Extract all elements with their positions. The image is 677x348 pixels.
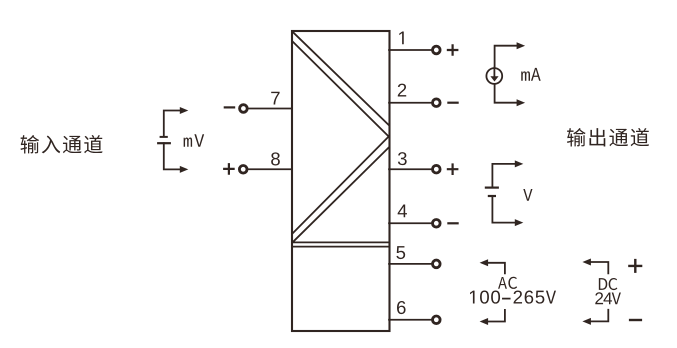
- terminal 6: [433, 316, 441, 324]
- AC supply top arrow: [487, 263, 505, 274]
- V source long plate: [486, 187, 498, 189]
- minus sign at terminal 2: [448, 102, 457, 104]
- wire pin2: [389, 102, 433, 104]
- isolation barrier diagonal 1: [293, 32, 389, 125]
- value label mV: [184, 138, 193, 147]
- label 24V: [595, 292, 603, 304]
- mA source top arrow: [495, 46, 518, 68]
- AC supply bottom arrow: [487, 310, 505, 322]
- plus sign at terminal 8: [224, 164, 233, 173]
- label output channel (Chinese): [567, 128, 586, 146]
- minus sign at terminal 4: [448, 222, 457, 224]
- wire pin4: [389, 222, 433, 224]
- label input channel (Chinese): [21, 135, 40, 153]
- DC supply top arrow: [590, 262, 608, 273]
- power section divider line 2: [292, 246, 390, 248]
- isolation barrier diagonal 4: [293, 148, 389, 243]
- pin number 6: [397, 301, 406, 314]
- label AC: [498, 277, 507, 289]
- terminal 4: [433, 220, 441, 228]
- terminal 1: [433, 46, 441, 54]
- pin number 1: [399, 32, 404, 45]
- V source top arrow: [492, 164, 515, 187]
- mV source battery short plate: [161, 136, 167, 138]
- plus sign at terminal 3: [448, 165, 457, 174]
- wire pin1: [389, 49, 433, 51]
- mA current source internal arrow: [493, 68, 495, 78]
- isolation barrier diagonal 2: [293, 42, 389, 137]
- label DC: [599, 278, 607, 290]
- DC supply minus sign: [630, 319, 641, 321]
- label 100-265V: [470, 291, 475, 304]
- mV source bottom arrow: [164, 143, 181, 169]
- V source bottom arrow: [492, 196, 515, 223]
- pin number 2: [398, 84, 406, 97]
- isolation barrier diagonal 3: [293, 137, 389, 234]
- terminal 5: [433, 260, 441, 268]
- mA source bottom arrow: [495, 84, 518, 103]
- mV source top arrow: [164, 111, 181, 136]
- terminal 3: [433, 165, 441, 173]
- terminal 7: [240, 105, 248, 113]
- terminal 8: [239, 166, 247, 174]
- wire pin3: [389, 168, 433, 170]
- mV source battery long plate: [158, 142, 170, 144]
- V source short plate: [489, 195, 495, 197]
- wire pin5: [389, 263, 433, 265]
- pin number 8: [271, 152, 280, 165]
- terminal 2: [433, 99, 441, 107]
- value label V: [523, 189, 532, 201]
- wire pin8: [248, 168, 292, 170]
- pin number 4: [398, 205, 407, 218]
- wire pin6: [389, 319, 433, 321]
- wire pin7: [248, 108, 292, 110]
- mA current source circle: [486, 68, 502, 84]
- DC supply bottom arrow: [590, 310, 608, 322]
- pin number 7: [271, 92, 279, 105]
- pin number 5: [396, 246, 405, 259]
- DC supply plus sign: [629, 260, 641, 272]
- power section divider line 1: [292, 241, 390, 243]
- minus sign at terminal 7: [225, 106, 234, 108]
- plus sign at terminal 1: [448, 45, 457, 54]
- isolator block U1: [292, 31, 390, 331]
- value label mA: [521, 71, 530, 80]
- pin number 3: [398, 152, 407, 165]
